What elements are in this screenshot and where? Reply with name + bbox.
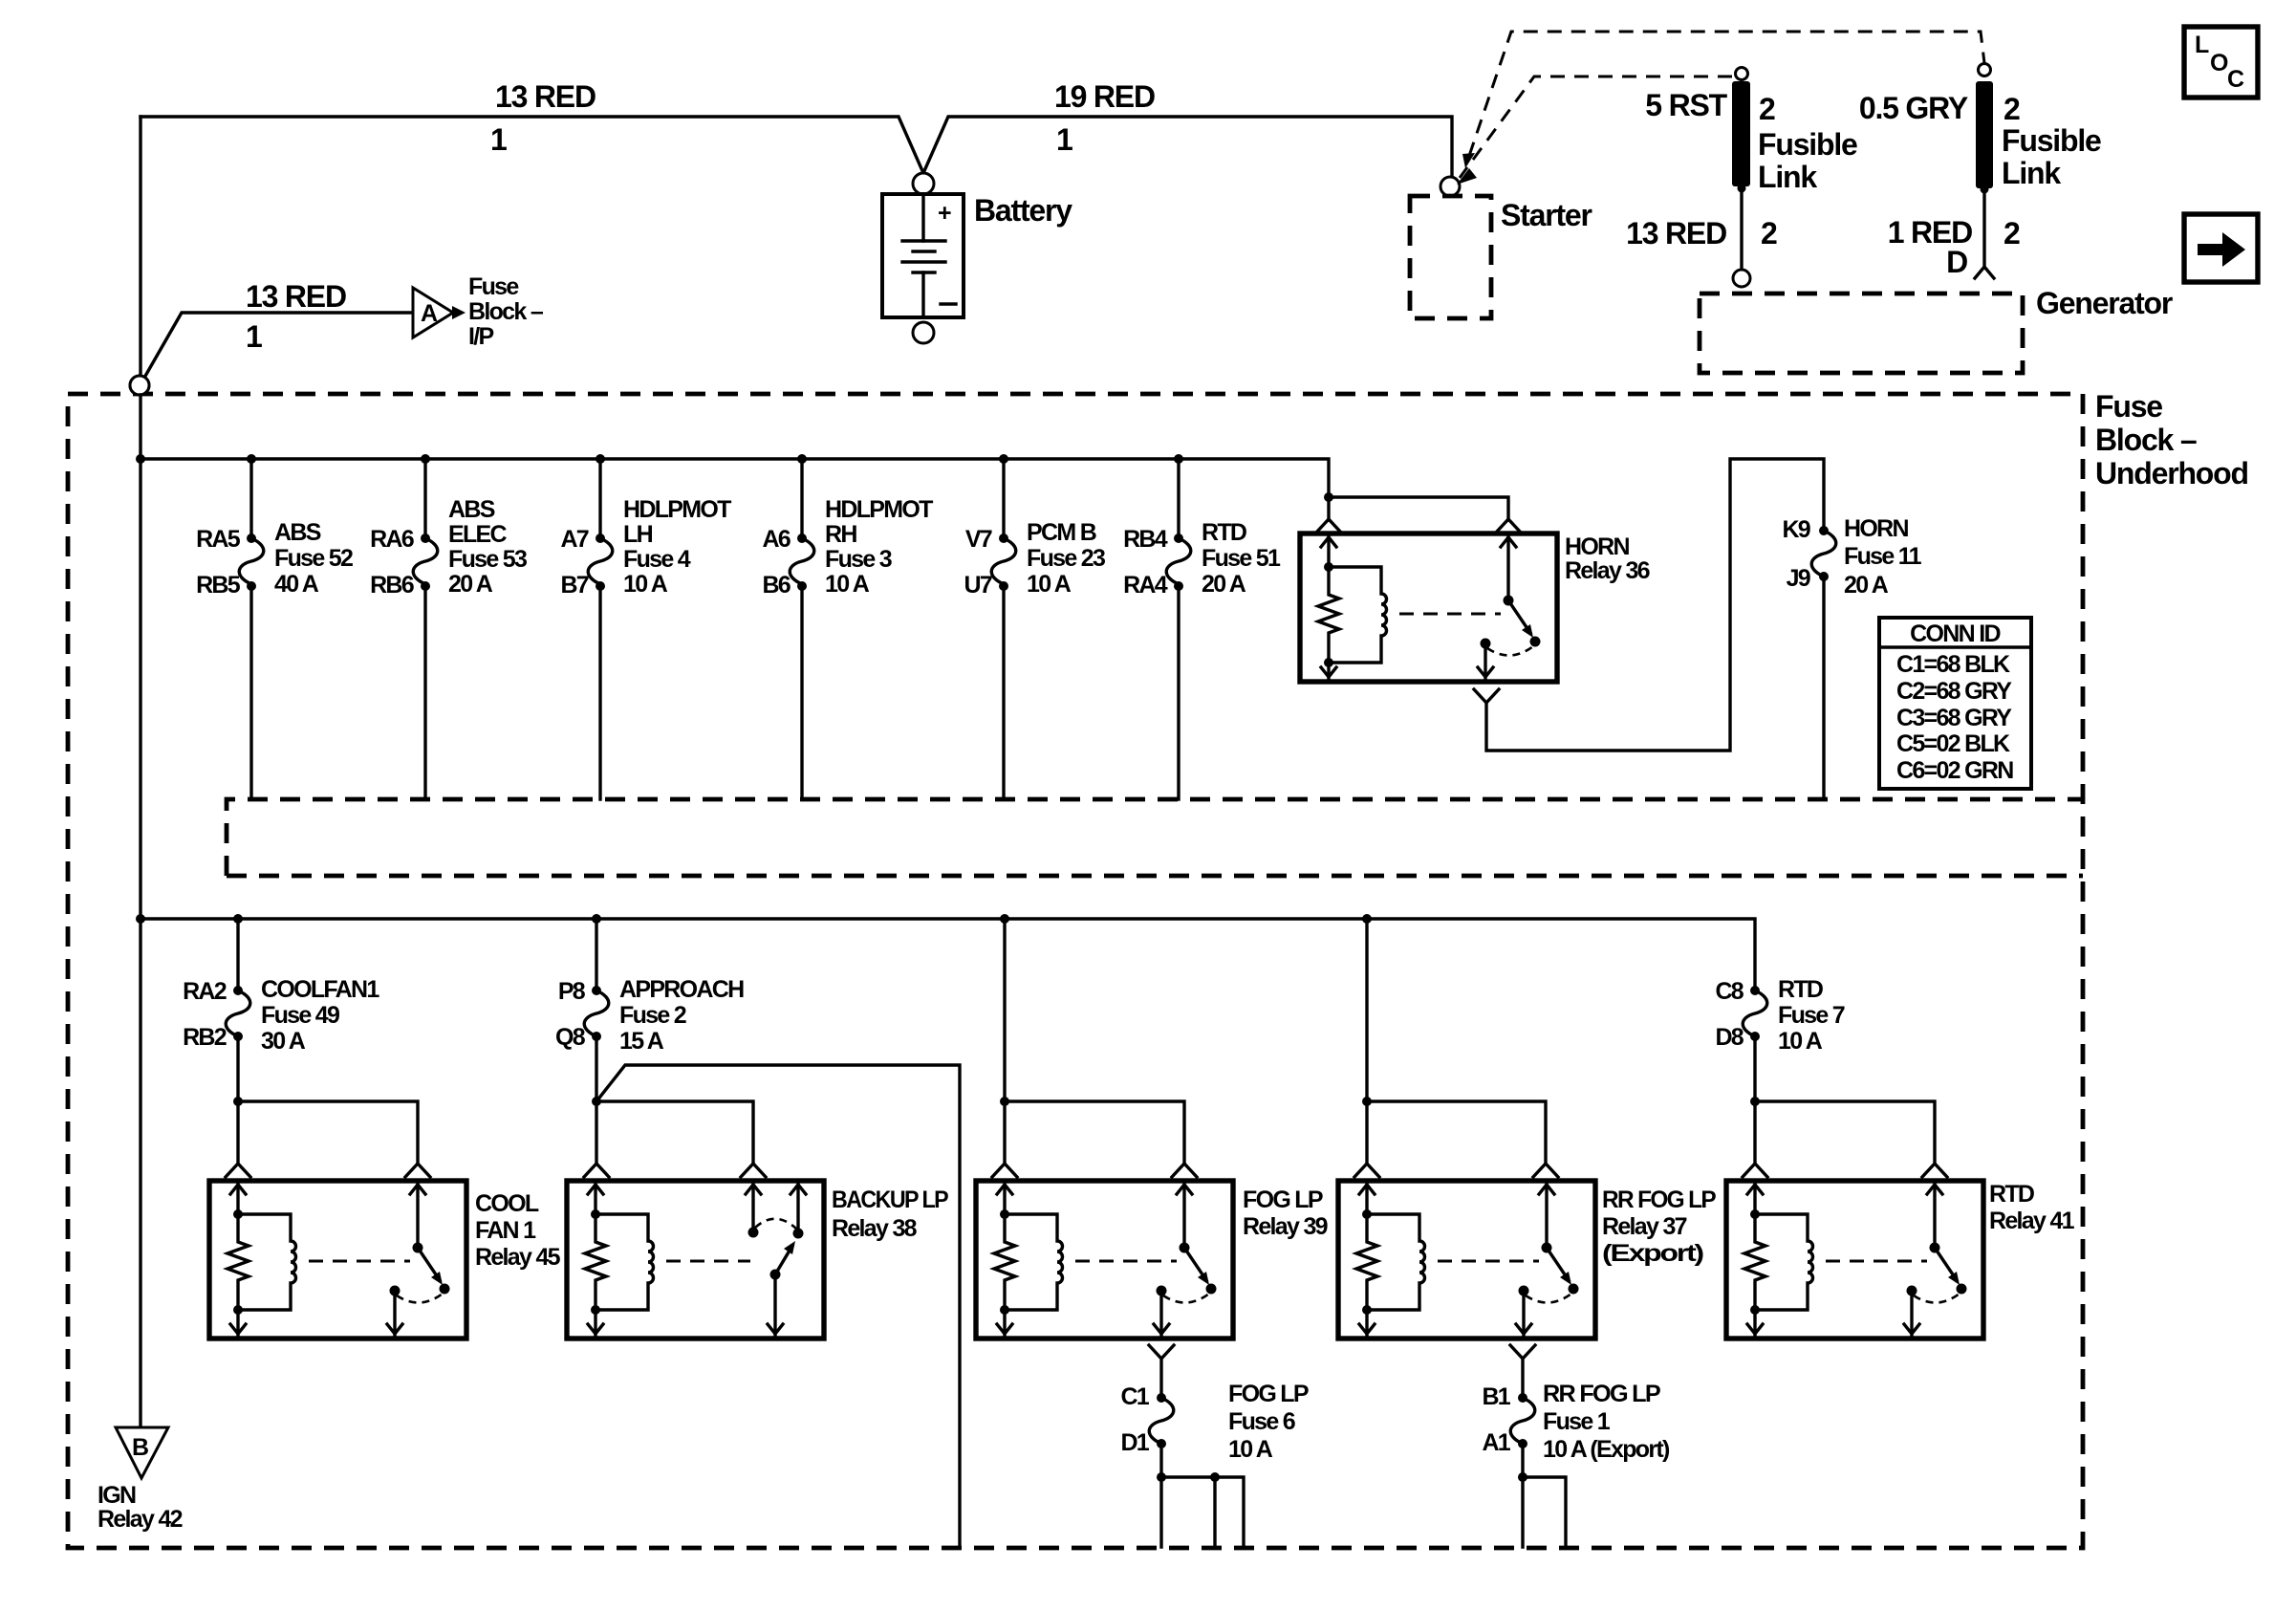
svg-text:Fuse 7: Fuse 7 bbox=[1778, 1002, 1845, 1029]
svg-text:10 A: 10 A bbox=[1228, 1436, 1273, 1463]
wire main vertical drop from 13 RED bbox=[139, 117, 141, 376]
svg-text:Fusible: Fusible bbox=[1758, 127, 1857, 162]
wire upper bus bbox=[141, 459, 1329, 497]
svg-text:Relay 41: Relay 41 bbox=[1989, 1208, 2075, 1234]
svg-text:ELEC: ELEC bbox=[448, 521, 508, 548]
svg-text:BACKUP LP: BACKUP LP bbox=[832, 1186, 948, 1213]
battery ground terminal circle bbox=[913, 322, 934, 343]
relay FOG LP Relay 39 bbox=[976, 1181, 1233, 1339]
fuse ABS ELEC Fuse 53 20A bbox=[370, 459, 527, 799]
svg-text:Link: Link bbox=[1758, 160, 1817, 194]
node bus taps bbox=[247, 454, 256, 464]
svg-text:P8: P8 bbox=[558, 978, 586, 1005]
svg-text:13 RED: 13 RED bbox=[495, 79, 596, 114]
fuse RTD Fuse 7 10A bbox=[1715, 976, 1844, 1101]
wire main vertical inside fuse block bbox=[139, 395, 141, 1427]
svg-text:C8: C8 bbox=[1715, 978, 1744, 1005]
svg-text:Fuse 6: Fuse 6 bbox=[1228, 1408, 1295, 1435]
CONN ID table bbox=[1879, 618, 2031, 789]
fuse FOG LP Fuse 6 10A bbox=[1157, 1393, 1166, 1403]
svg-text:B6: B6 bbox=[762, 572, 790, 599]
svg-text:13 RED: 13 RED bbox=[246, 279, 346, 314]
wire approach bypass feed down right side bbox=[596, 1065, 960, 1547]
svg-text:A1: A1 bbox=[1482, 1429, 1510, 1456]
fuse ABS Fuse 52 40A bbox=[196, 459, 353, 799]
svg-text:5 RST: 5 RST bbox=[1645, 88, 1727, 122]
svg-text:IGN: IGN bbox=[97, 1482, 136, 1509]
node rr fog relay feed junction bbox=[1365, 919, 1368, 1101]
fuse RTD Fuse 51 20A bbox=[1123, 459, 1281, 799]
svg-text:U7: U7 bbox=[964, 572, 991, 599]
svg-text:Fuse 51: Fuse 51 bbox=[1202, 545, 1281, 572]
svg-text:D1: D1 bbox=[1120, 1429, 1149, 1456]
svg-text:HDLPMOT: HDLPMOT bbox=[623, 496, 731, 523]
svg-text:D: D bbox=[1946, 245, 1967, 279]
svg-text:Underhood: Underhood bbox=[2095, 456, 2248, 490]
fuse RR FOG LP Fuse 1 10A bbox=[1518, 1393, 1527, 1403]
svg-text:Generator: Generator bbox=[2036, 286, 2173, 320]
svg-text:10 A: 10 A bbox=[623, 571, 668, 598]
svg-text:C1: C1 bbox=[1120, 1383, 1149, 1410]
relay HORN Relay 36 bbox=[1300, 533, 1557, 682]
svg-text:Fuse 52: Fuse 52 bbox=[274, 545, 353, 572]
svg-text:L: L bbox=[2195, 32, 2209, 58]
LOC legend box bbox=[2184, 27, 2258, 98]
svg-text:HDLPMOT: HDLPMOT bbox=[825, 496, 933, 523]
svg-text:+: + bbox=[938, 200, 951, 227]
node junction upper bus bbox=[136, 454, 145, 464]
svg-text:HORN: HORN bbox=[1565, 533, 1629, 560]
wire fog relay output bbox=[1149, 1345, 1174, 1359]
battery cell symbol bbox=[921, 194, 924, 241]
fuse COOLFAN1 Fuse 49 30A bbox=[183, 919, 379, 1101]
svg-text:Battery: Battery bbox=[974, 193, 1072, 228]
svg-text:O: O bbox=[2210, 50, 2228, 76]
svg-text:C2=68 GRY: C2=68 GRY bbox=[1896, 678, 2012, 705]
svg-text:C5=02 BLK: C5=02 BLK bbox=[1896, 730, 2010, 757]
svg-text:FOG LP: FOG LP bbox=[1243, 1186, 1323, 1213]
svg-text:(Export): (Export) bbox=[1602, 1240, 1704, 1267]
svg-text:40 A: 40 A bbox=[274, 571, 319, 598]
fusible link 2 (0.5 GRY) bbox=[1979, 64, 1991, 76]
starter dashed box bbox=[1410, 196, 1491, 318]
svg-text:10 A: 10 A bbox=[1027, 571, 1072, 598]
svg-text:B: B bbox=[132, 1434, 148, 1461]
battery box bbox=[882, 194, 964, 317]
svg-text:RB5: RB5 bbox=[196, 572, 241, 599]
svg-text:RB2: RB2 bbox=[183, 1024, 227, 1051]
svg-text:Fuse 3: Fuse 3 bbox=[825, 546, 892, 573]
svg-text:Q8: Q8 bbox=[555, 1024, 586, 1051]
svg-text:Fuse: Fuse bbox=[2095, 389, 2162, 424]
node cool fan relay feed junction bbox=[233, 1097, 243, 1106]
svg-text:A: A bbox=[421, 300, 438, 327]
node A junction circle on fuse block border bbox=[130, 376, 149, 395]
svg-text:PCM B: PCM B bbox=[1027, 519, 1096, 546]
wire horn relay output loop to fuse 11 bbox=[1474, 689, 1499, 703]
svg-text:J9: J9 bbox=[1787, 565, 1810, 592]
svg-text:Fuse 2: Fuse 2 bbox=[619, 1002, 686, 1029]
relay COOL FAN 1 Relay 45 bbox=[209, 1181, 466, 1339]
svg-text:B1: B1 bbox=[1482, 1383, 1510, 1410]
node rtd relay feed junction bbox=[1750, 1097, 1760, 1106]
svg-text:1: 1 bbox=[246, 319, 262, 354]
svg-text:FOG LP: FOG LP bbox=[1228, 1381, 1309, 1407]
svg-text:COOLFAN1: COOLFAN1 bbox=[261, 976, 379, 1003]
svg-text:Fuse 49: Fuse 49 bbox=[261, 1002, 339, 1029]
svg-text:COOL: COOL bbox=[475, 1190, 539, 1217]
svg-text:30 A: 30 A bbox=[261, 1028, 306, 1055]
fuse PCM B Fuse 23 10A bbox=[964, 459, 1105, 799]
connector chevrons into horn relay bbox=[1316, 519, 1341, 533]
svg-text:RA6: RA6 bbox=[370, 526, 414, 553]
svg-text:I/P: I/P bbox=[468, 323, 493, 350]
svg-text:C1=68 BLK: C1=68 BLK bbox=[1896, 651, 2010, 678]
svg-text:RTD: RTD bbox=[1778, 976, 1823, 1003]
svg-text:RA4: RA4 bbox=[1123, 572, 1168, 599]
svg-text:Fuse: Fuse bbox=[468, 273, 519, 300]
svg-text:Fuse 11: Fuse 11 bbox=[1844, 543, 1922, 570]
fuse HDLPMOT RH Fuse 3 10A bbox=[762, 459, 933, 799]
svg-text:0.5 GRY: 0.5 GRY bbox=[1859, 91, 1968, 125]
svg-text:Fuse 53: Fuse 53 bbox=[448, 546, 527, 573]
svg-text:Relay 38: Relay 38 bbox=[832, 1215, 918, 1242]
svg-text:Relay 37: Relay 37 bbox=[1602, 1213, 1687, 1240]
svg-text:2: 2 bbox=[2004, 216, 2020, 250]
svg-text:15 A: 15 A bbox=[619, 1028, 664, 1055]
svg-text:2: 2 bbox=[1759, 92, 1775, 126]
fuse HORN Fuse 11 20A bbox=[1819, 526, 1829, 535]
svg-text:A6: A6 bbox=[762, 526, 790, 553]
svg-text:ABS: ABS bbox=[274, 519, 321, 546]
node junction lower bus bbox=[136, 914, 145, 924]
wire rr fog relay output bbox=[1510, 1345, 1535, 1359]
svg-text:Link: Link bbox=[2002, 156, 2061, 190]
svg-text:RA2: RA2 bbox=[183, 978, 227, 1005]
svg-text:RB6: RB6 bbox=[370, 572, 414, 599]
connector A triangle (Fuse Block - I/P) bbox=[413, 288, 453, 337]
svg-text:K9: K9 bbox=[1782, 516, 1809, 543]
svg-text:Relay 45: Relay 45 bbox=[475, 1244, 561, 1271]
wire fog fuse output comb bbox=[1157, 1472, 1166, 1482]
svg-text:Relay 36: Relay 36 bbox=[1565, 557, 1650, 584]
wire to connector A bbox=[144, 313, 411, 378]
svg-text:RB4: RB4 bbox=[1123, 526, 1168, 553]
generator dashed box bbox=[1700, 294, 2023, 373]
svg-text:2: 2 bbox=[1761, 216, 1777, 250]
svg-text:Relay 42: Relay 42 bbox=[97, 1506, 183, 1533]
svg-text:10 A (Export): 10 A (Export) bbox=[1543, 1436, 1670, 1463]
svg-text:2: 2 bbox=[2004, 92, 2020, 126]
svg-text:A7: A7 bbox=[560, 526, 588, 553]
svg-text:FAN 1: FAN 1 bbox=[475, 1217, 536, 1244]
node fog relay feed junction bbox=[1003, 919, 1006, 1101]
svg-text:C: C bbox=[2227, 66, 2244, 93]
arrow legend box bbox=[2184, 214, 2258, 282]
node horn relay feed junction bbox=[1324, 492, 1333, 502]
wire lower bus bbox=[141, 919, 1755, 991]
svg-text:13 RED: 13 RED bbox=[1626, 216, 1726, 250]
svg-text:RR FOG LP: RR FOG LP bbox=[1543, 1381, 1660, 1407]
svg-text:20 A: 20 A bbox=[448, 571, 493, 598]
svg-text:LH: LH bbox=[623, 521, 653, 548]
svg-text:D8: D8 bbox=[1715, 1024, 1744, 1051]
svg-text:HORN: HORN bbox=[1844, 515, 1908, 542]
svg-text:Fuse 1: Fuse 1 bbox=[1543, 1408, 1611, 1435]
svg-text:Fuse 4: Fuse 4 bbox=[623, 546, 691, 573]
svg-text:Block –: Block – bbox=[468, 298, 544, 325]
svg-text:10 A: 10 A bbox=[1778, 1028, 1823, 1055]
svg-text:C3=68 GRY: C3=68 GRY bbox=[1896, 705, 2012, 731]
svg-text:20 A: 20 A bbox=[1844, 572, 1889, 599]
svg-text:RA5: RA5 bbox=[196, 526, 241, 553]
wire horn relay switch feed jog bbox=[1329, 497, 1508, 520]
svg-text:RR FOG LP: RR FOG LP bbox=[1602, 1186, 1716, 1213]
svg-text:1: 1 bbox=[490, 122, 507, 157]
dashed leader from fusible link 1 to starter bbox=[1460, 76, 1732, 178]
svg-text:RH: RH bbox=[825, 521, 856, 548]
svg-text:19 RED: 19 RED bbox=[1054, 79, 1155, 114]
relay BACKUP LP Relay 38 bbox=[567, 1181, 824, 1339]
svg-text:20 A: 20 A bbox=[1202, 571, 1246, 598]
svg-text:C6=02 GRN: C6=02 GRN bbox=[1896, 757, 2013, 784]
svg-text:CONN ID: CONN ID bbox=[1910, 620, 2000, 647]
dashed leader from fusible link 2 to starter bbox=[1469, 32, 1984, 156]
node backup relay feed junction bbox=[592, 1097, 601, 1106]
fuse block internal bus strip (dashed) bbox=[227, 799, 2083, 876]
fuse APPROACH Fuse 2 15A bbox=[555, 919, 744, 1101]
svg-text:1: 1 bbox=[1056, 122, 1072, 157]
svg-text:RTD: RTD bbox=[1202, 519, 1246, 546]
fuse block underhood dashed box bbox=[68, 394, 2083, 1548]
svg-text:Block –: Block – bbox=[2095, 423, 2197, 457]
connector B triangle (IGN Relay 42) bbox=[116, 1427, 168, 1478]
svg-text:Fusible: Fusible bbox=[2002, 123, 2101, 158]
wire rr fog fuse output comb bbox=[1518, 1472, 1527, 1482]
svg-text:Relay 39: Relay 39 bbox=[1243, 1213, 1328, 1240]
wire 13 RED battery feed (top horizontal) bbox=[141, 117, 1452, 177]
node A junction circle (over border) bbox=[130, 376, 149, 395]
battery B+ terminal circle bbox=[913, 173, 934, 194]
svg-text:B7: B7 bbox=[560, 572, 588, 599]
svg-text:Starter: Starter bbox=[1501, 198, 1592, 232]
fuse HDLPMOT LH Fuse 4 10A bbox=[560, 459, 731, 799]
svg-text:ABS: ABS bbox=[448, 496, 495, 523]
starter terminal circle bbox=[1440, 177, 1460, 196]
svg-text:10 A: 10 A bbox=[825, 571, 870, 598]
svg-text:Fuse 23: Fuse 23 bbox=[1027, 545, 1105, 572]
svg-text:V7: V7 bbox=[965, 526, 992, 553]
relay RR FOG LP Relay 37 bbox=[1338, 1181, 1595, 1339]
relay RTD Relay 41 bbox=[1726, 1181, 1983, 1339]
svg-text:RTD: RTD bbox=[1989, 1181, 2034, 1208]
fusible link 1 (5 RST) bbox=[1736, 68, 1748, 80]
svg-text:APPROACH: APPROACH bbox=[619, 976, 744, 1003]
